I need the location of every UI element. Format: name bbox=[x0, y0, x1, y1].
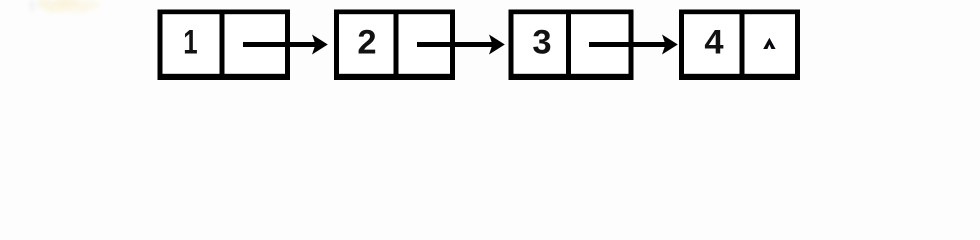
svg-text:3: 3 bbox=[532, 24, 551, 62]
svg-text:4: 4 bbox=[704, 24, 723, 62]
svg-text:1: 1 bbox=[183, 23, 197, 61]
svg-text:2: 2 bbox=[357, 24, 376, 62]
